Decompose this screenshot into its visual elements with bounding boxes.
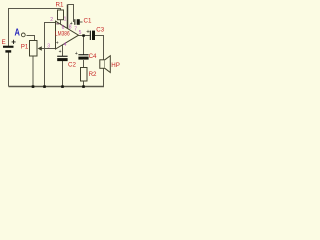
wire C2 bottom to ground	[62, 61, 64, 87]
wire input A to P1 top	[27, 36, 35, 41]
junction dot C2 ground	[61, 85, 64, 88]
svg-text:R2: R2	[89, 71, 97, 78]
speaker HP	[100, 56, 111, 73]
op-amp U1 LM386 triangle	[56, 21, 79, 49]
svg-text:E: E	[2, 39, 6, 46]
wire bottom ground rail	[9, 86, 105, 88]
wire C1 right stub	[80, 21, 83, 23]
svg-text:8: 8	[69, 24, 72, 30]
wire R2 bottom to ground	[83, 81, 85, 87]
wire gain loop pin1 leg	[67, 5, 69, 29]
potentiometer wiper arrow	[38, 46, 42, 50]
wire pin 2 to ground	[45, 23, 56, 87]
svg-text:C4: C4	[89, 53, 97, 60]
svg-text:1: 1	[64, 17, 67, 23]
junction dot P1 ground	[32, 85, 35, 88]
svg-text:4: 4	[64, 42, 67, 48]
svg-text:3: 3	[47, 43, 50, 49]
svg-text:+: +	[11, 37, 16, 46]
wire top supply rail	[9, 9, 61, 47]
svg-text:7: 7	[74, 27, 77, 33]
svg-text:5: 5	[79, 30, 82, 36]
svg-text:6: 6	[62, 25, 65, 31]
wire P1 bottom to ground	[32, 56, 34, 87]
wire pin 4 to C2	[62, 45, 64, 57]
svg-text:+: +	[59, 49, 62, 55]
junction dot pin2 ground	[43, 85, 46, 88]
capacitor C4 thick plate	[78, 57, 88, 60]
wire left battery to ground rail	[8, 53, 10, 87]
resistor R2	[81, 68, 88, 82]
wire C4 to R2	[83, 60, 85, 67]
capacitor C2 thin plate	[57, 56, 67, 57]
svg-text:+: +	[56, 41, 59, 47]
svg-text:P1: P1	[21, 43, 29, 50]
wire R1 bottom to pin 6	[60, 20, 62, 25]
junction dot R2 ground	[82, 85, 85, 88]
node A input terminal	[21, 33, 25, 37]
svg-text:C1: C1	[84, 18, 92, 25]
wire zobel top	[83, 36, 85, 55]
svg-text:+: +	[75, 51, 78, 57]
capacitor C1 thick plate	[77, 19, 80, 25]
svg-text:LM386: LM386	[55, 31, 70, 38]
svg-text:HP: HP	[111, 62, 120, 69]
capacitor C2 thick plate	[57, 58, 67, 61]
svg-text:R1: R1	[56, 2, 64, 9]
resistor R1	[58, 10, 64, 20]
capacitor C4 thin plate	[78, 54, 88, 55]
junction dot output node	[82, 34, 85, 37]
wire gain loop top and pin8 leg	[68, 5, 74, 23]
capacitor C3 thin plate	[90, 31, 91, 40]
svg-text:C3: C3	[96, 26, 104, 33]
wire P1 wiper to pin 3	[41, 48, 56, 50]
potentiometer P1	[30, 41, 38, 57]
capacitor C1 thin plate	[74, 19, 75, 25]
svg-text:C2: C2	[68, 61, 76, 68]
wire C3 to speaker	[95, 36, 104, 60]
svg-text:+: +	[86, 29, 90, 35]
battery E minus plate	[5, 50, 11, 52]
battery E plus plate	[3, 46, 14, 48]
op-amp minus input sign	[56, 23, 59, 24]
capacitor C3 thick plate	[92, 31, 95, 40]
wire speaker bottom to ground	[103, 69, 105, 87]
wire output pin 5 to C3	[79, 35, 90, 37]
svg-text:2: 2	[50, 17, 53, 23]
